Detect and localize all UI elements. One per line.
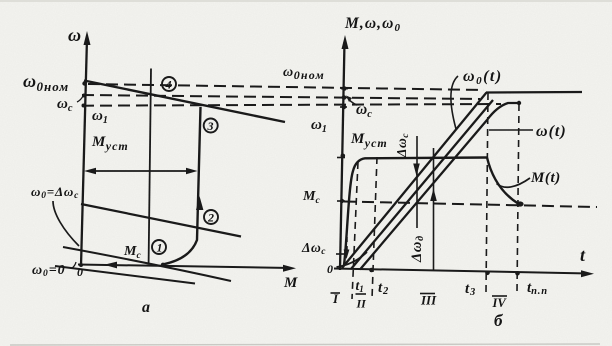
- circled 4: [162, 77, 176, 92]
- ramp line C with omega(t) top curve: [360, 103, 519, 270]
- circled 3: [204, 119, 218, 134]
- faint top scan edge: [0, 0, 612, 2]
- M(t) decay: [487, 158, 518, 204]
- vertical axis (right plot): [340, 35, 349, 270]
- svg-text:3: 3: [207, 119, 214, 133]
- tick after omega0=0: [72, 262, 76, 268]
- svg-text:а: а: [142, 299, 150, 316]
- svg-text:ω0=Δωс: ω0=Δωс: [31, 184, 79, 201]
- svg-text:4: 4: [165, 78, 172, 92]
- t2 dashed vertical: [372, 157, 377, 299]
- t axis: [334, 269, 594, 278]
- svg-text:ω: ω: [68, 25, 81, 45]
- trajectory left arrowhead on M axis: [104, 262, 117, 269]
- omega(t) start lag curve: [337, 252, 368, 267]
- svg-text:ω(t): ω(t): [536, 123, 567, 140]
- label omega-c (right) with tick: [346, 96, 372, 121]
- ramp line B: [351, 100, 493, 269]
- label omega0(t) with pointer: [451, 68, 503, 129]
- descending line omega0=0 characteristic: [63, 247, 231, 281]
- delta-omega-c measure vertical with down arrow: [413, 136, 420, 228]
- dashed line omega-c level: [82, 95, 480, 99]
- t_pp dashed vertical: [517, 104, 519, 292]
- right vertical trajectory line with up arrow: [163, 107, 204, 265]
- dot where trajectory meets axis: [161, 263, 165, 267]
- svg-text:М(t): М(t): [530, 170, 561, 186]
- pointer curve from omega0=delta label: [53, 201, 79, 246]
- middle vertical line (through Mc): [149, 69, 151, 264]
- svg-text:ω0(t): ω0(t): [463, 68, 503, 87]
- dashed line omega-1 level: [82, 104, 501, 106]
- M_ust double arrow: [84, 168, 198, 174]
- top solid line omega0 final: [486, 91, 582, 94]
- svg-text:М: М: [283, 275, 298, 291]
- natural characteristic line: [84, 81, 285, 123]
- ramp line A omega0(t): [342, 93, 487, 269]
- dot at end of M(t): [516, 201, 523, 206]
- bottom scan shadow: [10, 344, 600, 345]
- axis dot omega-c: [82, 94, 86, 98]
- M(t) rise and flat: [344, 158, 487, 266]
- label M(t) with pointer: [497, 170, 561, 187]
- t3 dashed vertical: [486, 93, 488, 292]
- roman I overlined: [331, 291, 341, 306]
- circled 2: [204, 210, 218, 225]
- roman II overlined: [356, 294, 368, 311]
- svg-text:М,ω,ω0: М,ω,ω0: [344, 15, 401, 34]
- label omega-c (left) with tick: [57, 96, 83, 114]
- dots on t axis: [369, 268, 374, 273]
- tick on axis delta omega c level: [336, 253, 345, 255]
- roman IV overlined: [492, 296, 508, 310]
- svg-text:IV: IV: [492, 296, 508, 310]
- ticks on right axis: [337, 89, 348, 201]
- ascending line omega0=delta-omega-c characteristic: [81, 204, 241, 237]
- dashed line omega-0-nom level: [88, 84, 484, 90]
- svg-text:0: 0: [77, 265, 83, 279]
- axis dot omega-onom: [82, 81, 86, 85]
- svg-text:ω0ном: ω0ном: [283, 65, 325, 82]
- omega axis (left plot): [81, 31, 91, 266]
- delta-omega-d measure vertical with up arrow: [430, 148, 437, 270]
- dot at end of omega(t): [517, 101, 521, 105]
- svg-text:II: II: [356, 297, 368, 311]
- origin dot left: [79, 263, 83, 267]
- short dashed vertical with down arrow near origin: [344, 237, 350, 259]
- svg-text:0: 0: [327, 262, 333, 276]
- svg-text:III: III: [420, 293, 437, 308]
- svg-text:ω0=0: ω0=0: [32, 263, 65, 279]
- Mc dashed level (right): [344, 202, 597, 208]
- short descending line below axis: [55, 266, 195, 284]
- axis dot omega-1: [82, 104, 86, 108]
- circled 1: [152, 240, 166, 255]
- dots on right axis at levels: [342, 86, 347, 91]
- roman III overlined: [420, 293, 437, 308]
- svg-text:1: 1: [157, 241, 163, 255]
- M axis (left plot): [78, 265, 296, 272]
- t1 dashed vertical: [352, 162, 358, 299]
- label omega(t) with pointer: [489, 123, 567, 140]
- svg-text:2: 2: [207, 211, 214, 225]
